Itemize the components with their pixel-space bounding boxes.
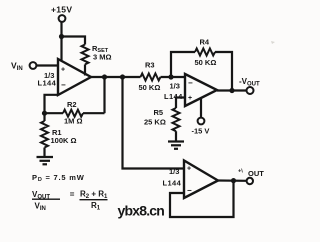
svg-text:50 KΩ: 50 KΩ [139,83,161,92]
svg-text:1/3: 1/3 [170,82,180,91]
wire R1 to ground [43,148,45,158]
watermark ybx8.cn [118,203,165,219]
+\ OUT label [238,169,264,179]
svg-text:1M Ω: 1M Ω [64,117,83,126]
wire R4 down to U2 output [215,52,232,91]
svg-text:50 KΩ: 50 KΩ [195,58,217,67]
svg-text:+: + [61,67,65,74]
ground below R5 [168,142,184,149]
wire R2 right segment [83,112,105,114]
wire output node down and right to op-amp U3 + input [123,77,185,169]
R5 label [144,108,166,127]
wire output node down to R2 [103,77,105,113]
PD dissipation note [32,173,85,183]
R1 label [51,128,77,145]
svg-text:−: − [187,186,192,195]
wire U2 V- pin down to -15V terminal [200,98,202,118]
svg-text:−: − [188,79,193,88]
gain formula VOUT/VIN = (R2+R1)/R1 [32,190,108,213]
U1 designator 1/3 L144 [38,71,57,88]
svg-text:L144: L144 [163,179,182,188]
ground below R1 [37,157,54,164]
svg-text:+15V: +15V [51,4,72,14]
resistor R4 [195,49,215,56]
node U2 output/R4 junction [229,88,234,93]
OUT terminal [247,178,253,184]
node U3 output/feedback junction [231,178,236,183]
R2 label [64,100,83,126]
svg-text:R4: R4 [200,38,210,47]
-VOUT terminal [247,87,254,94]
resistor R2 [63,110,83,117]
resistor RSET [82,45,89,65]
-VOUT label [239,77,260,88]
VIN terminal [30,62,37,69]
resistor R5 [173,108,180,131]
wire U3 output to OUT terminal [218,179,246,182]
svg-text:25 KΩ: 25 KΩ [144,118,166,127]
wire R4 branch up and across [171,52,195,77]
svg-text:+: + [187,166,191,173]
svg-text:3 MΩ: 3 MΩ [93,53,112,62]
resistor R3 [141,74,161,81]
svg-text:R3: R3 [145,61,155,70]
VIN input label [11,61,23,73]
wire U1 inverting input to R1 node [45,95,59,113]
svg-text:ybx8.cn: ybx8.cn [118,203,165,219]
wire U3 feedback loop [170,181,234,217]
svg-text:-15 V: -15 V [192,126,210,135]
wire RSET bottom to U1 output node [84,64,86,75]
node R3/R4 junction [168,74,173,79]
+15V terminal [59,15,66,22]
resistor R1 [41,121,48,148]
wire R3 to U2 inverting input [161,76,186,78]
svg-text:=: = [70,190,75,199]
R3 label [139,61,161,93]
-15V terminal [198,118,205,125]
wire R5 to ground [175,131,177,141]
wire U2 output to -VOUT terminal [217,89,247,91]
faint scan speck top right [271,41,275,44]
node output/R2 junction [102,74,107,79]
RSET value label [92,44,112,62]
svg-text:R2: R2 [67,100,77,109]
svg-text:R2 + R1: R2 + R1 [80,190,108,201]
svg-text:1/3: 1/3 [169,167,179,176]
U2 designator 1/3 L144 [164,82,183,102]
wire VIN to U1 + input [36,64,58,66]
-15V label [192,126,210,135]
node junction +15V/RSET [59,34,64,39]
svg-text:L144: L144 [38,79,57,88]
wire +15V down to op-amp U1 top [60,22,62,61]
wire U1 output to R3 [91,76,141,78]
svg-text:100K Ω: 100K Ω [51,136,77,145]
node output/follower junction [120,74,125,79]
wire node to R1 [43,113,45,121]
op-amp U3 (1/3 L144) [184,161,218,199]
op-amp U2 (1/3 L144) [185,74,217,106]
svg-text:−: − [61,81,66,90]
svg-text:OUT: OUT [248,169,264,178]
wire junction to RSET top [62,37,86,45]
R4 label [195,38,217,68]
U3 designator 1/3 L144 [163,167,182,188]
wire R2 row left segment [45,112,64,114]
svg-text:+: + [188,95,192,102]
svg-text:+\: +\ [238,169,243,175]
op-amp U1 (1/3 L144) [58,59,91,95]
wire U2 + input to R5 [176,98,185,109]
svg-text:R5: R5 [154,108,164,117]
node R1/R2 junction [42,111,47,116]
+15V supply label [51,4,72,14]
